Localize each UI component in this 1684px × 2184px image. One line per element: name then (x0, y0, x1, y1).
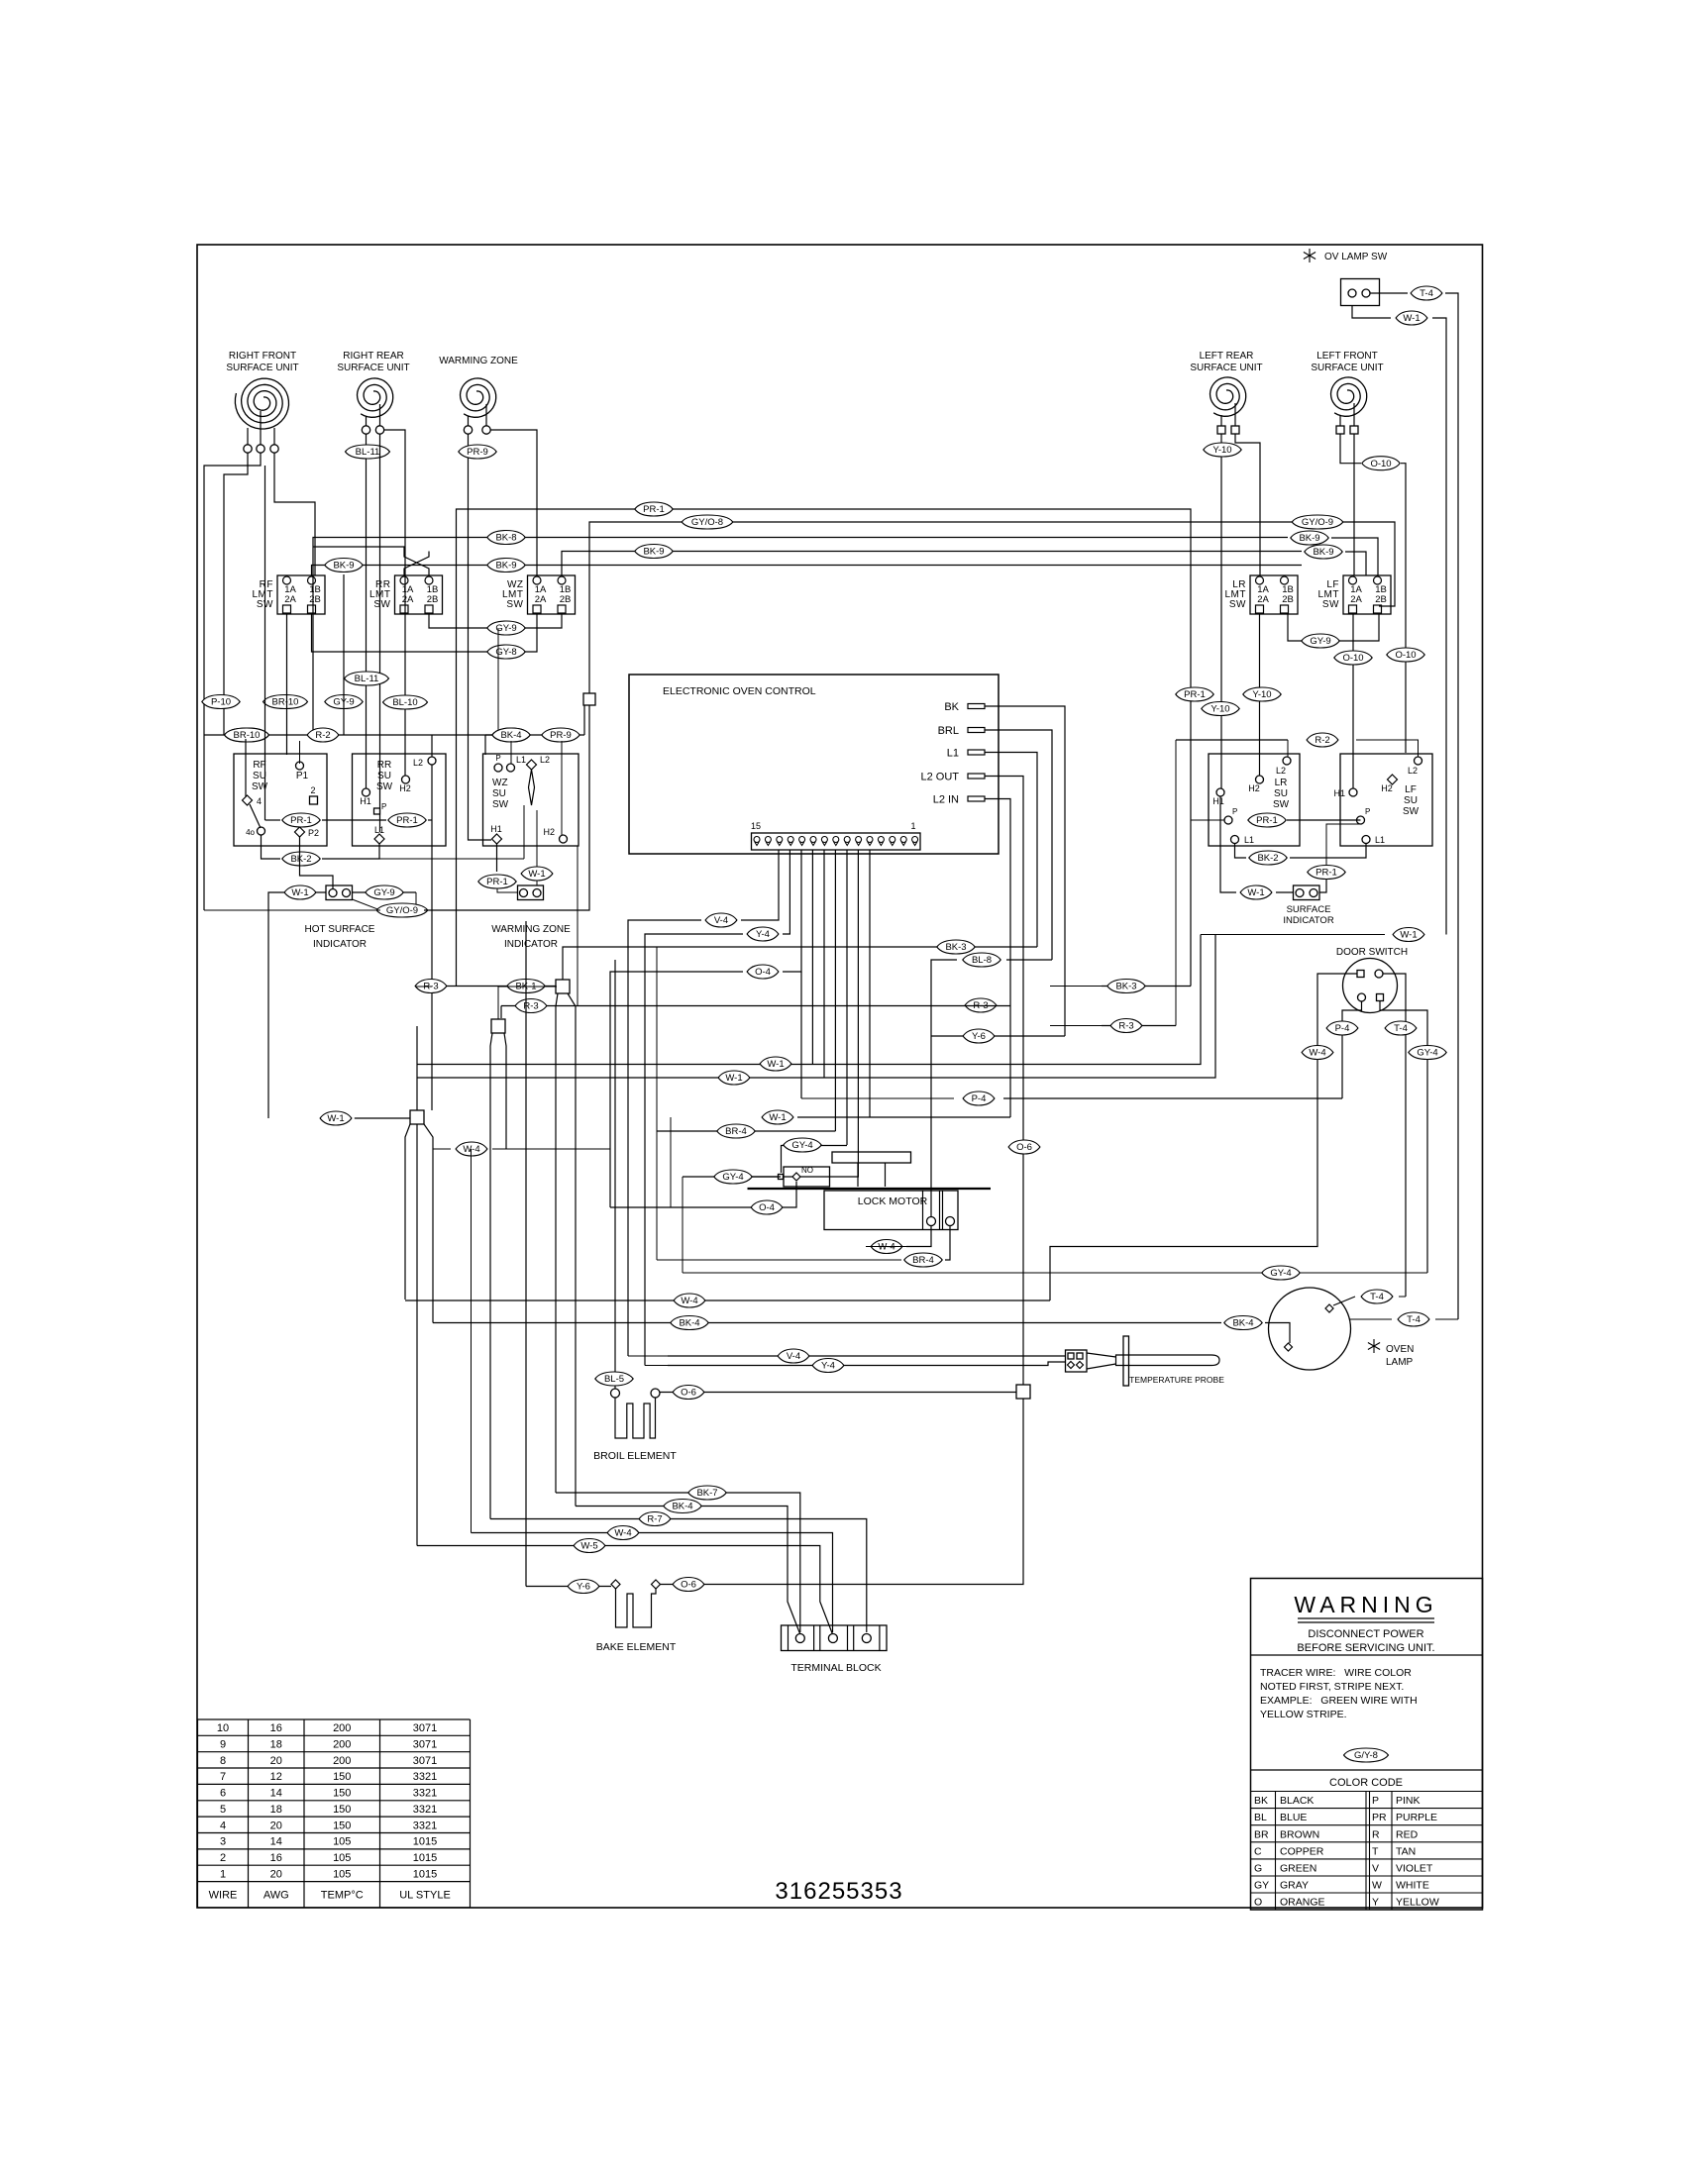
svg-text:BK-2: BK-2 (1257, 853, 1278, 864)
wire W-4 row to terminal block (472, 1533, 833, 1633)
EOC connector pin 12 (788, 837, 793, 843)
svg-text:GY: GY (1254, 1880, 1269, 1892)
temperature probe (1087, 1336, 1224, 1386)
wire label BK-4 (664, 1500, 701, 1513)
svg-text:105: 105 (333, 1836, 351, 1848)
svg-text:PR-9: PR-9 (467, 447, 488, 458)
EOC connector pin 14 (765, 837, 771, 843)
wire GY-9 right of indicator (353, 891, 417, 893)
svg-text:WARMING ZONE: WARMING ZONE (491, 924, 571, 935)
svg-text:8: 8 (220, 1755, 226, 1767)
wire BK-9 bus center (562, 552, 1302, 576)
wire R-7 drop (490, 1033, 492, 1519)
svg-text:Y-10: Y-10 (1212, 445, 1231, 456)
svg-text:COPPER: COPPER (1280, 1845, 1324, 1857)
svg-text:GY-4: GY-4 (722, 1172, 743, 1183)
svg-text:BK-3: BK-3 (1115, 982, 1136, 992)
wire GY-4 elbow to lock NO pin (782, 1146, 848, 1174)
svg-text:BK-4: BK-4 (500, 730, 521, 741)
oven lamp (1269, 1288, 1415, 1370)
wire PR-9 from WZ unit to H1 (469, 435, 492, 841)
wire label BR-10 (225, 728, 269, 742)
EOC terminal L2 IN (933, 794, 985, 806)
svg-text:BK: BK (944, 701, 959, 713)
svg-text:BK-7: BK-7 (696, 1488, 717, 1499)
svg-text:12: 12 (270, 1771, 282, 1783)
wire Y-6 row (931, 1035, 1065, 1037)
svg-text:L2 OUT: L2 OUT (920, 772, 959, 783)
svg-text:P: P (495, 754, 500, 763)
svg-text:INDICATOR: INDICATOR (1283, 915, 1334, 926)
svg-text:3071: 3071 (413, 1755, 437, 1767)
svg-text:L1: L1 (516, 755, 526, 765)
svg-text:W-1: W-1 (769, 1112, 786, 1123)
svg-text:2B: 2B (1282, 594, 1294, 605)
svg-text:RIGHT FRONT: RIGHT FRONT (229, 351, 296, 362)
svg-text:BL: BL (1254, 1812, 1267, 1823)
broil element (593, 1389, 677, 1462)
svg-text:SURFACE: SURFACE (1287, 904, 1331, 915)
wire label O-6 (673, 1386, 704, 1400)
EOC connector pin 10 (810, 837, 816, 843)
wire label R-2 (307, 728, 339, 742)
wire R-2 row right (1176, 739, 1288, 741)
wire GY-9 between LR and LF LMT (1288, 613, 1379, 641)
svg-text:GY-4: GY-4 (1270, 1268, 1291, 1279)
wire BK-3 connect (1050, 986, 1102, 988)
wire T-4 from OV LAMP SW to label (1370, 292, 1408, 294)
wire BK-3 row right (1102, 986, 1191, 988)
wire BK-9 to LF LMT 1A area (1345, 552, 1366, 575)
wire O-10 from LF LMT 2A down (1352, 613, 1354, 788)
wire W-1 row 3 (797, 1116, 1010, 1118)
svg-text:BK-9: BK-9 (643, 547, 664, 558)
wire GY/O-9 to junction (424, 705, 589, 910)
bake element (596, 1580, 677, 1653)
wire label Y-6 (963, 1029, 995, 1043)
wire label BK-9 (325, 559, 363, 572)
svg-text:V-4: V-4 (714, 915, 728, 926)
svg-text:SW: SW (1229, 599, 1246, 610)
wire O-6 to bake element (661, 1399, 1024, 1585)
svg-text:2: 2 (310, 785, 315, 795)
svg-text:BK-9: BK-9 (333, 561, 354, 572)
wire GY-9 between LMT switches (429, 613, 562, 628)
svg-text:PR: PR (1372, 1812, 1387, 1823)
svg-text:L2: L2 (1276, 766, 1286, 776)
EOC connector pin 13 (777, 837, 783, 843)
wire label GY-9 (1302, 634, 1339, 648)
wire label BK-9 (1305, 545, 1342, 559)
svg-text:W-4: W-4 (878, 1242, 895, 1253)
wire label GY-9 (325, 695, 363, 709)
svg-text:ELECTRONIC OVEN CONTROL: ELECTRONIC OVEN CONTROL (663, 685, 816, 697)
svg-text:BR-4: BR-4 (912, 1255, 934, 1266)
svg-text:SU: SU (377, 771, 391, 781)
wire from RF LMT 2A down to RF SU SW (286, 613, 288, 755)
limit switch RF LMT SW (253, 575, 326, 614)
wire R-3 row far right (1102, 1025, 1176, 1027)
svg-text:P: P (1365, 807, 1370, 816)
limit switch LF LMT SW (1318, 575, 1392, 614)
svg-text:2A: 2A (1350, 594, 1362, 605)
svg-text:150: 150 (333, 1804, 351, 1816)
wire label BK-1 (507, 980, 545, 993)
svg-text:150: 150 (333, 1820, 351, 1831)
svg-text:2A: 2A (535, 594, 547, 605)
svg-text:AWG: AWG (263, 1890, 289, 1902)
svg-text:BL-10: BL-10 (392, 697, 417, 708)
svg-text:R-2: R-2 (315, 730, 330, 741)
lock motor (748, 1152, 992, 1230)
svg-text:BR-10: BR-10 (272, 697, 299, 708)
svg-text:EXAMPLE: GREEN WIRE WITH: EXAMPLE: GREEN WIRE WITH (1260, 1695, 1418, 1707)
svg-text:GY/O-9: GY/O-9 (386, 905, 418, 916)
svg-text:L1: L1 (1244, 835, 1254, 845)
wire PR-1 middle (322, 819, 386, 821)
wire R-2 vertical down (1175, 740, 1177, 1026)
wire O-6 row from broil element (660, 1392, 1016, 1394)
limit switch RR LMT SW (369, 575, 443, 614)
svg-text:SURFACE UNIT: SURFACE UNIT (337, 363, 409, 373)
wire label GY-4 (1409, 1046, 1446, 1060)
svg-text:O-4: O-4 (759, 1202, 775, 1213)
svg-text:BAKE ELEMENT: BAKE ELEMENT (596, 1641, 677, 1653)
right front surface unit heating coil (226, 351, 298, 453)
junction node A (556, 980, 570, 993)
wire BR-4 link (656, 1131, 658, 1260)
wire PR-1 between LR and LF (1287, 819, 1361, 821)
svg-text:NOTED FIRST, STRIPE NEXT.: NOTED FIRST, STRIPE NEXT. (1260, 1681, 1404, 1693)
svg-text:PR-1: PR-1 (643, 504, 665, 515)
svg-text:15: 15 (751, 821, 761, 831)
wire PR-1 from indicator (1319, 880, 1326, 892)
wire GY-4 drop from pin 7 (846, 850, 848, 1145)
wire Y-4 left end (645, 1365, 668, 1367)
svg-text:1015: 1015 (413, 1836, 437, 1848)
svg-text:H2: H2 (1248, 783, 1260, 793)
wire PR-1 bus (457, 509, 1192, 987)
svg-text:GRAY: GRAY (1280, 1880, 1309, 1892)
EOC connector pin 8 (833, 837, 839, 843)
junction node D (1016, 1385, 1030, 1399)
EOC connector pin 6 (856, 837, 862, 843)
svg-text:DISCONNECT POWER: DISCONNECT POWER (1308, 1628, 1423, 1640)
svg-text:H1: H1 (1333, 788, 1345, 798)
warming zone heating coil (439, 356, 518, 434)
svg-text:SW: SW (492, 799, 509, 810)
svg-text:O-6: O-6 (681, 1580, 696, 1591)
svg-text:GY-4: GY-4 (791, 1140, 812, 1151)
svg-text:4o: 4o (246, 828, 255, 837)
svg-text:O-6: O-6 (1016, 1142, 1032, 1153)
wire label W-4 (1302, 1046, 1333, 1060)
wire label BL-11 (345, 672, 389, 685)
svg-text:R-7: R-7 (647, 1514, 662, 1525)
svg-text:10: 10 (217, 1722, 229, 1734)
wire label BK-2 (282, 852, 320, 866)
wire label Y-4 (747, 927, 779, 941)
svg-text:BK-4: BK-4 (672, 1502, 692, 1512)
svg-text:V-4: V-4 (787, 1351, 800, 1362)
temperature probe connector (1066, 1350, 1088, 1372)
wire BK-7 drop (556, 993, 558, 1493)
oven lamp switch OV LAMP SW (1304, 249, 1388, 306)
wire crossover at RR LMT SW (404, 552, 429, 576)
svg-text:18: 18 (270, 1739, 282, 1751)
svg-text:O-10: O-10 (1370, 459, 1391, 469)
svg-text:20: 20 (270, 1868, 282, 1880)
wire W-1 down to junction (268, 892, 280, 1118)
svg-text:NO: NO (801, 1166, 813, 1175)
wire label Y-6 (568, 1580, 599, 1594)
wire W-1 to indicator (536, 881, 538, 885)
wire label BK-3 (1107, 980, 1145, 993)
wire from LR unit to LR LMT SW (1235, 435, 1260, 576)
svg-text:P-4: P-4 (972, 1093, 987, 1104)
wire T-4 stub (1399, 1296, 1406, 1298)
wire BK-4 long row (433, 1322, 1221, 1324)
wire label O-4 (747, 965, 779, 979)
svg-text:P-4: P-4 (1335, 1023, 1350, 1034)
EOC terminal BK (944, 701, 985, 713)
wire R-2 up to GY-9 row (497, 628, 499, 735)
wire label W-4 (871, 1240, 902, 1254)
wire W-1 drop from pin 10 (811, 850, 813, 1064)
svg-text:TERMINAL BLOCK: TERMINAL BLOCK (790, 1662, 881, 1674)
svg-text:SU: SU (1274, 788, 1288, 799)
wire label W-4 (607, 1526, 639, 1540)
wire BL-5 to broil element (614, 960, 616, 1389)
wire BK-2 from LR L1 (1235, 843, 1247, 858)
svg-text:SW: SW (376, 781, 393, 792)
wire W-1 long row (417, 935, 1201, 1065)
svg-text:VIOLET: VIOLET (1396, 1862, 1433, 1874)
EOC connector pin 15 (754, 837, 760, 843)
EOC connector pin 7 (844, 837, 850, 843)
svg-text:3321: 3321 (413, 1804, 437, 1816)
wire label O-4 (751, 1200, 783, 1214)
svg-text:3: 3 (220, 1836, 226, 1848)
svg-text:INDICATOR: INDICATOR (504, 939, 558, 950)
wire T-4 right end (1435, 1318, 1458, 1320)
wire Y-4 down (645, 934, 743, 1366)
wire from RF unit to RF LMT SW (274, 454, 315, 576)
EOC connector pin 3 (890, 837, 895, 843)
svg-text:YELLOW STRIPE.: YELLOW STRIPE. (1260, 1709, 1347, 1720)
svg-text:SU: SU (492, 788, 506, 799)
wire vertical from BK-3 row (656, 947, 658, 1131)
wire label PR-1 (388, 813, 426, 827)
svg-text:COLOR CODE: COLOR CODE (1329, 1777, 1403, 1789)
wire label W-4 (674, 1294, 705, 1307)
wire W-1 to hot surface indicator (280, 891, 326, 893)
wire PR-1 right (428, 819, 432, 821)
wire label R-2 (1307, 733, 1338, 747)
wire GY-4 to lock NO (683, 1176, 781, 1178)
wire label PR-1 (1248, 813, 1286, 827)
wire BK-8 bus (313, 538, 1288, 736)
wire label BK-4 (671, 1316, 708, 1330)
drawing border frame (197, 245, 1483, 1908)
wire label BR-4 (904, 1253, 942, 1267)
wire V-4 down (628, 920, 701, 1356)
wire P-4 from door switch (1342, 1001, 1362, 1098)
wire GY-9 vertical 2 (343, 574, 345, 735)
wire BK-9 bus lower (312, 566, 1303, 576)
left rear surface unit heating coil (1190, 351, 1262, 434)
wire label Y-10 (1243, 687, 1281, 701)
svg-text:RIGHT REAR: RIGHT REAR (343, 351, 404, 362)
svg-text:O-10: O-10 (1395, 650, 1416, 661)
svg-text:SU: SU (253, 771, 266, 781)
svg-text:20: 20 (270, 1755, 282, 1767)
limit switch WZ LMT SW (502, 575, 576, 614)
wire label BK-2 (1249, 851, 1287, 865)
svg-text:P2: P2 (308, 828, 319, 838)
wire W-4 row (433, 1148, 451, 1150)
svg-text:BK-3: BK-3 (945, 942, 966, 953)
svg-text:SURFACE UNIT: SURFACE UNIT (1311, 363, 1383, 373)
wire label W-1 (760, 1057, 791, 1071)
wire O-10 from LF unit (1340, 435, 1361, 464)
svg-text:PR-1: PR-1 (1184, 689, 1206, 700)
svg-text:WARMING ZONE: WARMING ZONE (439, 356, 518, 366)
svg-text:BK-2: BK-2 (290, 854, 311, 865)
wire label R-3 (415, 980, 447, 993)
wire label BR-4 (717, 1124, 755, 1138)
svg-text:L1: L1 (1375, 835, 1385, 845)
wire BK-4 down to WZ L1 (510, 741, 512, 764)
wire W-1 drop from pin 9 (823, 850, 825, 1078)
svg-text:3071: 3071 (413, 1739, 437, 1751)
svg-text:Y-6: Y-6 (577, 1582, 590, 1593)
wire W-4 long row (405, 1300, 1050, 1301)
svg-text:7: 7 (220, 1771, 226, 1783)
svg-text:1015: 1015 (413, 1852, 437, 1864)
wire label R-7 (639, 1512, 671, 1526)
junction node B (491, 1019, 505, 1033)
wire label W-1 (284, 885, 316, 899)
svg-text:BL-5: BL-5 (604, 1374, 624, 1385)
wire BK-2 to RR L1 (322, 843, 379, 859)
wire T-4 to lamp (1333, 1297, 1355, 1305)
svg-text:BK-8: BK-8 (495, 533, 516, 544)
wire W-1 to surface indicator (1276, 891, 1294, 893)
svg-text:BK-4: BK-4 (1232, 1318, 1253, 1329)
wire V-4 row to probe (668, 1355, 1066, 1357)
svg-text:BEFORE SERVICING UNIT.: BEFORE SERVICING UNIT. (1297, 1642, 1434, 1654)
svg-text:20: 20 (270, 1820, 282, 1831)
svg-text:W-1: W-1 (725, 1073, 742, 1084)
wire vertical from WZ SU SW (577, 846, 579, 1006)
wire BK-9 to LF LMT 1B (1331, 538, 1378, 575)
svg-text:W-4: W-4 (681, 1296, 697, 1306)
svg-text:T-4: T-4 (1394, 1023, 1408, 1034)
wire O-4 down (610, 972, 743, 1207)
svg-text:YELLOW: YELLOW (1396, 1897, 1439, 1909)
wire label V-4 (705, 913, 737, 927)
svg-text:W-1: W-1 (528, 869, 545, 880)
wire W-1 row right (1201, 934, 1385, 936)
wire BL-8 to lock motor (931, 960, 957, 1221)
wire label PR-1 (635, 502, 673, 516)
surface unit switch WZ SU SW (483, 754, 579, 846)
svg-text:SW: SW (506, 599, 523, 610)
wire gauge table (198, 1719, 471, 1908)
svg-text:PR-1: PR-1 (1316, 868, 1337, 879)
svg-text:BK-9: BK-9 (1299, 533, 1319, 544)
wire BK-2 up to WZ L2 (523, 805, 525, 859)
svg-text:INDICATOR: INDICATOR (313, 939, 367, 950)
wire label W-1 (718, 1071, 750, 1085)
wire BK-4 into WZ SU SW (484, 735, 486, 755)
svg-text:P: P (1372, 1795, 1379, 1807)
wire P-4 vertical continue (800, 972, 802, 1098)
wire W-4 from lock motor (906, 1226, 931, 1247)
svg-text:L2 IN: L2 IN (933, 794, 959, 806)
svg-text:L2: L2 (1408, 766, 1418, 776)
svg-text:H1: H1 (1212, 796, 1224, 806)
wire GY-4 down (682, 1177, 684, 1273)
EOC terminal BRL (938, 725, 985, 737)
wire W-4 drop from junction C (405, 1124, 410, 1300)
svg-text:BLUE: BLUE (1280, 1812, 1307, 1823)
wire label GY/O-8 (682, 515, 733, 529)
svg-text:WIRE: WIRE (209, 1890, 238, 1902)
svg-text:200: 200 (333, 1755, 351, 1767)
wire W-4 row left (866, 1246, 906, 1248)
wire label R-3 (965, 998, 997, 1012)
wire label O-10 (1387, 648, 1424, 662)
wire label P-10 (202, 695, 240, 709)
svg-text:SW: SW (373, 599, 390, 610)
wire BL-11 from RR unit to RR SU SW (366, 435, 368, 789)
svg-text:200: 200 (333, 1739, 351, 1751)
svg-text:BK-4: BK-4 (679, 1318, 699, 1329)
svg-text:R-3: R-3 (1118, 1021, 1133, 1032)
wire R-7 row to terminal block (490, 1519, 867, 1633)
svg-text:T-4: T-4 (1407, 1314, 1421, 1325)
wire label BR-10 (263, 695, 308, 709)
limit switch LR LMT SW (1225, 575, 1299, 614)
wire O-4 to lock NO pin (610, 1182, 796, 1207)
right rear surface unit heating coil (337, 351, 409, 434)
svg-text:HOT SURFACE: HOT SURFACE (305, 924, 375, 935)
svg-text:GY/O-8: GY/O-8 (691, 517, 723, 528)
svg-text:3321: 3321 (413, 1788, 437, 1800)
svg-text:T-4: T-4 (1420, 288, 1433, 299)
wire label O-10 (1362, 457, 1400, 470)
door switch (1336, 947, 1408, 1013)
wire label T-4 (1385, 1021, 1417, 1035)
svg-text:O-6: O-6 (681, 1388, 696, 1399)
svg-text:LAMP: LAMP (1386, 1357, 1414, 1368)
svg-text:1: 1 (910, 821, 915, 831)
wire BK-4 to lamp pin (1265, 1323, 1290, 1344)
wire W-1 from LR H1 to indicator (1220, 796, 1236, 892)
svg-text:16: 16 (270, 1722, 282, 1734)
wire W-5 drop from junction C (416, 1124, 418, 1546)
wire W-1 up from indicator (536, 810, 538, 867)
wire label PR-9 (459, 445, 496, 459)
wire PR-1 to LR P (1191, 819, 1228, 821)
wire label GY-4 (714, 1170, 752, 1184)
EOC connector pin 9 (821, 837, 827, 843)
svg-text:P-10: P-10 (211, 697, 231, 708)
svg-text:O-10: O-10 (1342, 653, 1363, 664)
svg-text:WARNING: WARNING (1294, 1592, 1437, 1617)
